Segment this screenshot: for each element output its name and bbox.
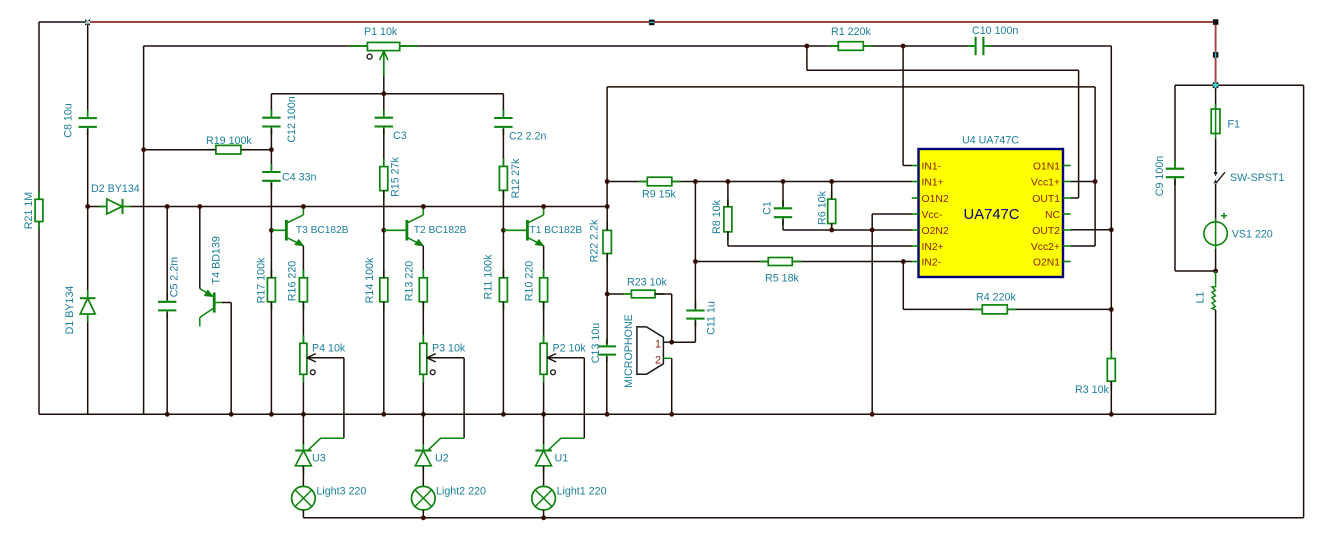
resistor R4 220k (982, 305, 1007, 314)
svg-text:C11 1u: C11 1u (706, 301, 718, 335)
wire T3 emitter to R (302, 246, 304, 278)
resistor R9 15k (647, 177, 672, 186)
svg-text:R17 100k: R17 100k (256, 257, 268, 303)
wire C8 top segment (87, 22, 89, 116)
resistor R8 10k (724, 207, 732, 232)
wire C13 to rail (606, 357, 608, 415)
diode D2 BY134 (99, 199, 131, 214)
resistor R1 220k (838, 42, 863, 51)
wire R6 top lead (831, 182, 833, 200)
svg-text:C4 33n: C4 33n (282, 172, 317, 184)
wire R23node to C13 (606, 294, 608, 344)
junction VS1 bottom node (1213, 269, 1218, 274)
junction IN2- left (693, 259, 698, 264)
wire lamp to bottom (302, 510, 304, 518)
junction R3 rail (1109, 412, 1114, 417)
wire rail to U1 (543, 414, 545, 444)
junction mic rail (669, 412, 674, 417)
svg-text:P1 10k: P1 10k (364, 26, 398, 38)
junction Vcc1+ node (1093, 179, 1098, 184)
svg-text:MICROPHONE: MICROPHONE (623, 314, 635, 388)
svg-text:IN1+: IN1+ (922, 177, 944, 188)
wire R13 220 to pot (422, 302, 424, 344)
svg-text:1: 1 (655, 339, 661, 351)
wire C11 top (694, 262, 696, 309)
wire pot to rail (543, 382, 545, 414)
wire x1111 from top (1110, 46, 1112, 230)
wire C2 to R12 (502, 129, 504, 167)
junction Vcc- rail (870, 412, 875, 417)
wire IN2- net y261.5 (695, 261, 912, 263)
svg-text:Vcc1+: Vcc1+ (1031, 177, 1060, 188)
wire T3base to R17 to rail (270, 230, 272, 277)
wire R8 bottom corner (727, 232, 729, 246)
wire C1 bottom corner (782, 219, 784, 230)
junction D2 anode (85, 204, 90, 209)
svg-text:C8 10u: C8 10u (63, 103, 75, 138)
wire right box top (1175, 84, 1304, 86)
wire C1 top lead (782, 182, 784, 207)
resistor R15 27k (380, 167, 388, 191)
wire R8 top lead (727, 182, 729, 207)
thyristor U1 (535, 443, 551, 474)
wire C9 branch top (1174, 85, 1176, 166)
potentiometer P2 10k (540, 343, 547, 374)
wire x607 to rail end (606, 182, 608, 207)
resistor R5 18k (768, 258, 792, 266)
wire y70.3 to OUT1 (807, 69, 1079, 71)
wire drop to C12 (270, 94, 272, 116)
wire OUT1 riser (1078, 70, 1080, 198)
svg-text:IN2-: IN2- (922, 257, 942, 268)
svg-text:IN2+: IN2+ (922, 242, 944, 253)
wire T1base to R11 to rail (502, 230, 504, 277)
svg-text:R12 27k: R12 27k (510, 158, 522, 198)
junction x607 rail (605, 412, 610, 417)
svg-text:T4 BD139: T4 BD139 (211, 236, 223, 284)
svg-text:D2 BY134: D2 BY134 (91, 183, 140, 195)
svg-text:O2N2: O2N2 (922, 226, 949, 237)
svg-text:OUT2: OUT2 (1032, 226, 1060, 237)
svg-text:R14 100k: R14 100k (364, 257, 376, 303)
svg-text:NC: NC (1045, 210, 1061, 221)
wire C8 to D2 node (87, 129, 89, 207)
wire D2-node to D1 (87, 207, 89, 291)
resistor R23 10k (631, 290, 655, 298)
svg-text:C10 100n: C10 100n (972, 25, 1018, 37)
resistor R13 220 (419, 278, 427, 302)
svg-text:P3 10k: P3 10k (432, 343, 466, 355)
wire C5 bottom (166, 312, 168, 414)
wire C12 to R19 node (270, 129, 272, 171)
svg-text:R11 100k: R11 100k (483, 254, 495, 300)
svg-text:P4 10k: P4 10k (312, 343, 346, 355)
wire L1 to rail (1215, 310, 1217, 415)
svg-text:R6 10k: R6 10k (817, 190, 829, 225)
svg-text:R21 1M: R21 1M (23, 192, 35, 230)
junction T2 chain rail (421, 412, 426, 417)
resistor R19 100k (216, 145, 241, 154)
junction x607 IN1+ node (605, 179, 610, 184)
resistor R11 100k (499, 278, 507, 302)
junction mic pin1 (669, 340, 674, 345)
svg-text:L1: L1 (1195, 292, 1207, 304)
resistor R10 220 (540, 278, 548, 302)
svg-text:U1: U1 (555, 453, 569, 465)
wire R10 220 to pot (543, 302, 545, 344)
wire IN1+ net y181.5 (607, 181, 912, 183)
capacitor C13 10u (598, 345, 616, 347)
junction T3 chain rail (301, 412, 306, 417)
node marker on red rail (black square) (649, 20, 655, 26)
resistor R21 1M (35, 199, 43, 221)
wire IN1- to pin (903, 165, 912, 167)
wire D1 to bottom rail (87, 322, 89, 414)
svg-text:R15 27k: R15 27k (390, 156, 402, 196)
resistor R22 2.2k (603, 230, 611, 253)
svg-text:VS1 220: VS1 220 (1232, 229, 1273, 241)
wire rail to R22 (606, 207, 608, 231)
wire C9 branch bottom (1174, 179, 1176, 271)
wire P3 10k wiper (428, 357, 464, 359)
svg-text:UA747C: UA747C (964, 207, 1020, 223)
op-amp U4 UA747C (912, 149, 1071, 277)
thyristor U2 (415, 443, 431, 474)
capacitor C12 100n (262, 117, 280, 119)
wire OUT2 link (1071, 229, 1112, 231)
capacitor C11 1u (686, 309, 704, 311)
capacitor C4 33n (262, 171, 280, 173)
wire switch to VS1 (1215, 184, 1217, 222)
svg-text:R16 220: R16 220 (287, 261, 299, 301)
svg-text:C12 100n: C12 100n (286, 96, 298, 142)
wire wiper net y93.7 (271, 93, 503, 95)
svg-text:2: 2 (655, 354, 661, 366)
wire U1 to lamp (543, 466, 545, 487)
wire C3 to R15 (383, 129, 385, 167)
resistor R17 100k (267, 278, 275, 302)
svg-text:OUT1: OUT1 (1032, 194, 1060, 205)
svg-text:R4 220k: R4 220k (976, 292, 1016, 304)
junction rail end (605, 204, 610, 209)
node marker red drop (black square) (1213, 52, 1219, 58)
wire pot to rail (422, 382, 424, 414)
wire R6 bottom lead (831, 224, 833, 231)
svg-text:T1 BC182B: T1 BC182B (530, 225, 583, 236)
resistor R14 100k (380, 278, 388, 302)
wire Vcc riser x1095 (1094, 87, 1096, 246)
wire rail y206.5 (131, 206, 608, 208)
wire U3 to lamp (302, 466, 304, 487)
svg-text:C13 10u: C13 10u (590, 323, 602, 363)
lamp Light3 220 (292, 486, 316, 510)
wire drop to C3 (383, 94, 385, 116)
wire P2 10k wiper (548, 357, 584, 359)
node marker red corner (black square) (1213, 19, 1219, 25)
svg-text:C9 100n: C9 100n (1154, 156, 1166, 196)
wire T2base to R14 to rail (383, 230, 385, 277)
junction R23 node (605, 292, 610, 297)
junction R6 bottom (829, 228, 834, 233)
inductor L1 (1212, 283, 1216, 310)
junction T1 base (501, 228, 506, 233)
capacitor C2 2.2n (494, 117, 512, 119)
wire U3 gate lead (308, 438, 344, 450)
svg-text:R1 220k: R1 220k (831, 26, 871, 38)
svg-text:R5 18k: R5 18k (765, 273, 800, 285)
svg-text:O2N1: O2N1 (1033, 257, 1060, 268)
wire T4 emitter up (199, 207, 201, 289)
svg-text:R19 100k: R19 100k (206, 135, 252, 147)
wire top distribution rail y46 (144, 45, 974, 47)
wire R16 220 to pot (302, 302, 304, 344)
wire lamp to bottom (422, 510, 424, 518)
diode D1 BY134 (80, 290, 96, 322)
svg-text:SW-SPST1: SW-SPST1 (1230, 172, 1284, 184)
wire U2 gate lead (428, 438, 464, 450)
junction R14 rail (381, 412, 386, 417)
svg-text:Vcc-: Vcc- (922, 210, 943, 221)
wire right box right side (1303, 85, 1305, 518)
junction T1 chain rail (541, 412, 546, 417)
junction lamp2 return (421, 515, 426, 520)
transistor T3 (271, 207, 303, 246)
wire top-left horizontal (39, 21, 89, 23)
wire Vcc1+ link (1071, 181, 1096, 183)
svg-text:O1N2: O1N2 (922, 194, 949, 205)
svg-text:R23 10k: R23 10k (627, 277, 667, 289)
junction Vcc-/O2N2 (870, 228, 875, 233)
wire R19 right (241, 149, 272, 151)
junction T3 collector (301, 204, 306, 209)
wire red right drop (1215, 22, 1217, 85)
wire x607 top corner (606, 87, 608, 182)
wire R23 right corner (655, 293, 672, 295)
wire C11 bottom corner (694, 321, 696, 343)
wire R1 left drop (806, 46, 808, 70)
wire pot to rail (302, 382, 304, 414)
capacitor C5 2.2m (158, 301, 176, 303)
wire VS1 to node (1215, 249, 1217, 271)
capacitor C3 (375, 117, 393, 119)
switch SW-SPST1 (1214, 172, 1226, 183)
wire T4 base down (222, 302, 231, 304)
transistor T2 (384, 207, 424, 246)
lamp Light2 220 (412, 486, 436, 510)
mic pin 2 stub (663, 357, 671, 359)
wire fuse to switch (1215, 139, 1217, 174)
wire IN1+/IN2- link (694, 182, 696, 262)
wire outer left vertical (38, 22, 40, 414)
wire R22 to R23 node (606, 254, 608, 295)
potentiometer P1 10k (367, 42, 399, 50)
svg-text:O1N1: O1N1 (1033, 161, 1060, 172)
microphone MIC1 (637, 327, 664, 374)
potentiometer P4 10k (300, 343, 307, 374)
transistor T4 BD139 (200, 289, 222, 327)
svg-text:C3: C3 (393, 130, 407, 142)
junction R9 right (693, 179, 698, 184)
svg-text:U4 UA747C: U4 UA747C (962, 135, 1019, 147)
svg-text:C2 2.2n: C2 2.2n (509, 131, 546, 143)
wire R12 to T1 base node (502, 190, 504, 230)
svg-text:IN1-: IN1- (922, 161, 942, 172)
wire T1 emitter to R (543, 246, 545, 278)
wire R23 left (607, 293, 624, 295)
wire y86.9 to right (607, 86, 1095, 88)
svg-text:T3 BC182B: T3 BC182B (296, 225, 349, 236)
junction C5 rail top (165, 204, 170, 209)
node marker right box top (1213, 82, 1219, 88)
source VS1 220 (1204, 213, 1227, 249)
wire U1 gate lead (549, 438, 585, 450)
wire R4node to R3 (1110, 309, 1112, 358)
wire T2 emitter to R (422, 246, 424, 278)
svg-text:C5 2.2m: C5 2.2m (169, 257, 181, 297)
junction T1 collector (541, 204, 546, 209)
junction IN2- right (901, 259, 906, 264)
svg-text:U2: U2 (435, 453, 449, 465)
svg-text:R10 220: R10 220 (524, 261, 536, 301)
wire drop to C2 (502, 94, 504, 116)
junction R19 right (269, 147, 274, 152)
wire U2 to lamp (422, 466, 424, 487)
resistor R3 10k (1107, 359, 1115, 382)
svg-text:P2 10k: P2 10k (553, 343, 587, 355)
wire rail D2 left (88, 206, 104, 208)
wire left drop x143.6 (143, 46, 145, 414)
transistor T1 (503, 207, 543, 246)
wire mic pin2 to rail (671, 358, 673, 414)
wire P4 10k wiper (308, 357, 344, 359)
junction T2 collector (421, 204, 426, 209)
wire C4 to T3 base node (270, 183, 272, 231)
svg-text:Light3 220: Light3 220 (316, 486, 366, 498)
resistor R6 10k (828, 199, 836, 223)
wire R3 to rail (1110, 381, 1112, 414)
node A marker (net start) (85, 20, 90, 26)
junction T3 base (269, 228, 274, 233)
wire R15 to T2 base node (383, 191, 385, 231)
junction C1 top (781, 179, 786, 184)
wire node to L1 (1215, 271, 1217, 283)
junction wiper node (381, 91, 386, 96)
junction R1 right (901, 44, 906, 49)
svg-text:R3 10k: R3 10k (1075, 384, 1110, 396)
resistor R16 220 (299, 278, 307, 302)
resistor R12 27k (499, 166, 507, 190)
wire lamp to bottom (543, 510, 545, 518)
svg-text:U3: U3 (312, 453, 326, 465)
wire R4 net y309.4 (903, 308, 1111, 310)
junction R19 left (141, 147, 146, 152)
wire x1111 OUT2 to R4 (1110, 230, 1112, 310)
svg-text:Light1 220: Light1 220 (557, 486, 607, 498)
wire IN1- drop x903 (902, 46, 904, 166)
wire red top rail (90, 21, 1216, 23)
svg-text:D1 BY134: D1 BY134 (64, 286, 76, 335)
svg-text:T2 BC182B: T2 BC182B (414, 225, 467, 236)
capacitor C9 100n (1166, 168, 1184, 170)
mic pin 1 stub (663, 341, 671, 343)
thyristor U3 (295, 443, 311, 474)
svg-text:R8 10k: R8 10k (711, 199, 723, 234)
wire IN2- to R4 drop (902, 262, 904, 310)
junction C5 rail bottom (165, 412, 170, 417)
capacitor C10 100n (975, 37, 977, 55)
wire rail to U2 (422, 414, 424, 444)
junction R11 rail (501, 412, 506, 417)
svg-text:R22 2.2k: R22 2.2k (589, 219, 601, 262)
wire R19 left (144, 149, 216, 151)
junction T2 base (381, 228, 386, 233)
junction R6 top (829, 179, 834, 184)
junction R8 top (726, 179, 731, 184)
junction R4 right (1109, 307, 1114, 312)
wire lamp return rail (303, 517, 1303, 519)
svg-text:F1: F1 (1228, 119, 1241, 131)
svg-text:R9 15k: R9 15k (642, 189, 677, 201)
wire Vcc- drop (871, 214, 873, 414)
svg-text:C1: C1 (762, 201, 774, 215)
lamp Light1 220 (532, 486, 556, 510)
svg-text:Vcc2+: Vcc2+ (1031, 242, 1060, 253)
wire rail to U3 (302, 414, 304, 444)
svg-text:R13 220: R13 220 (404, 261, 416, 301)
junction OUT2 node (1109, 227, 1114, 232)
wire fuse feed (1215, 85, 1217, 109)
junction R17 rail (269, 412, 274, 417)
junction R1 left (805, 44, 810, 49)
fuse F1 (1211, 104, 1220, 139)
wire C5 top (166, 207, 168, 300)
potentiometer P3 10k (420, 343, 427, 374)
junction lamp1 return (541, 515, 546, 520)
svg-text:Light2 220: Light2 220 (436, 486, 486, 498)
capacitor C1 (774, 207, 792, 209)
wire P1 wiper to node (383, 76, 385, 94)
capacitor C8 10u (79, 117, 97, 119)
junction T4 base rail (229, 412, 234, 417)
junction T4 rail (197, 204, 202, 209)
wire bottom rail y414 (39, 413, 1216, 415)
